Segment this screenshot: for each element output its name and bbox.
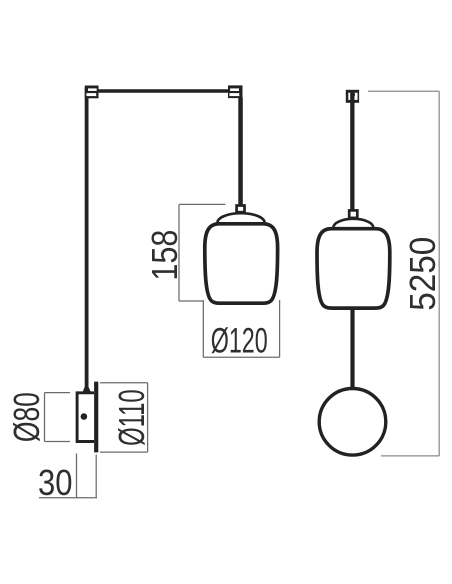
wall plate edge — [94, 382, 98, 453]
svg-text:158: 158 — [144, 230, 185, 281]
dimension 5250 lines — [368, 91, 439, 456]
svg-text:Ø80: Ø80 — [6, 392, 47, 442]
screw dot — [81, 413, 88, 420]
dimension 158 lines — [179, 204, 226, 301]
svg-text:5250: 5250 — [402, 237, 443, 311]
horizontal arm — [98, 89, 229, 93]
shade collar dome (right lamp) — [333, 219, 373, 228]
sphere ball (right lamp) — [319, 389, 386, 456]
wall mount box — [77, 393, 94, 442]
socket (left lamp) — [237, 206, 245, 213]
dimension D110 lines — [100, 383, 148, 452]
rod taper into mount — [83, 387, 91, 393]
socket (right lamp) — [349, 210, 357, 218]
svg-text:Ø120: Ø120 — [211, 322, 268, 361]
stem rod (right lamp) — [350, 308, 354, 389]
top-left bracket — [85, 86, 99, 99]
dimension 30 lines — [39, 454, 97, 498]
glass shade barrel (left lamp) — [205, 224, 278, 303]
pendant cord (left lamp) — [238, 98, 243, 206]
top-right bracket — [228, 85, 243, 98]
wall arm vertical rod — [85, 87, 89, 388]
ceiling canopy (right lamp) — [346, 90, 359, 103]
svg-text:Ø110: Ø110 — [111, 389, 152, 446]
shade collar dome (left lamp) — [217, 213, 264, 223]
dimension D120 lines — [203, 300, 279, 357]
glass shade barrel (right lamp) — [317, 229, 390, 308]
suspension cord (right lamp) — [350, 91, 354, 211]
svg-text:30: 30 — [38, 462, 73, 503]
dimension D80 lines — [45, 393, 71, 442]
